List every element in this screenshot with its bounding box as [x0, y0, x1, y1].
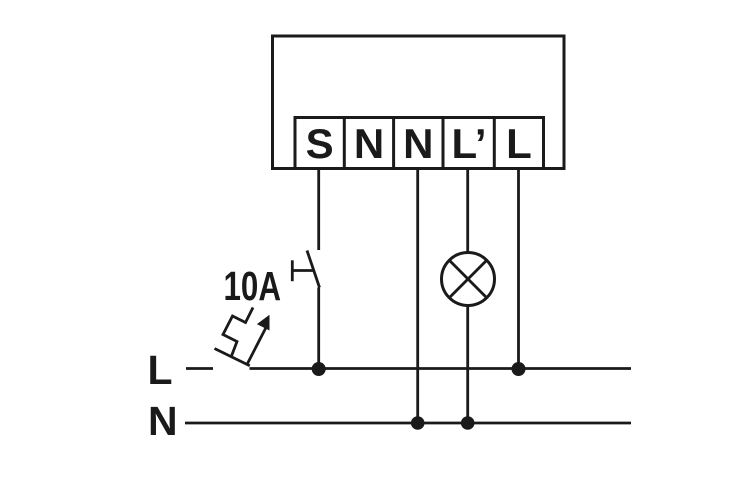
svg-text:N: N	[148, 398, 178, 444]
lamp E1 cross stroke 1	[449, 260, 486, 297]
terminal divider 1	[343, 118, 346, 169]
wire from terminal L down to L bus	[517, 169, 520, 370]
junction node: terminal L wire to L bus	[512, 362, 526, 376]
wire from terminal L' down to lamp	[466, 169, 469, 253]
junction node: lamp wire to N bus	[461, 416, 475, 430]
L bus line	[250, 367, 632, 370]
breaker F1 blade	[215, 349, 250, 366]
terminal strip	[295, 118, 544, 169]
wire from lamp down to N bus	[466, 306, 469, 424]
breaker F1 arrow shaft	[248, 328, 267, 364]
svg-text:N: N	[403, 120, 433, 167]
breaker F1 arrow head	[257, 315, 270, 331]
lamp E1 cross stroke 2	[449, 260, 486, 297]
switch S1 actuator rod	[291, 269, 314, 272]
svg-text:S: S	[306, 120, 334, 167]
svg-text:L’: L’	[451, 120, 486, 167]
wire from terminal S down to switch	[317, 169, 320, 251]
switch S1 blade	[307, 251, 320, 288]
svg-text:L: L	[506, 120, 532, 167]
terminal divider 3	[442, 118, 445, 169]
terminal divider 2	[392, 118, 395, 169]
N bus line	[185, 422, 631, 425]
svg-text:L: L	[148, 347, 173, 393]
junction node: switch to L bus	[312, 362, 326, 376]
terminal divider 4	[493, 118, 496, 169]
lamp E1 circle	[442, 253, 495, 306]
breaker F1 staircase	[223, 308, 253, 357]
svg-text:10A: 10A	[224, 263, 282, 309]
junction node: terminal N2 wire to N bus	[411, 416, 425, 430]
wire from terminal N2 down to N bus	[416, 169, 419, 424]
device box U1	[273, 36, 565, 169]
svg-text:N: N	[354, 120, 384, 167]
L bus lead-in dash	[186, 367, 213, 370]
wire from switch down to L bus	[317, 288, 320, 370]
switch S1 actuator tick	[291, 260, 294, 281]
